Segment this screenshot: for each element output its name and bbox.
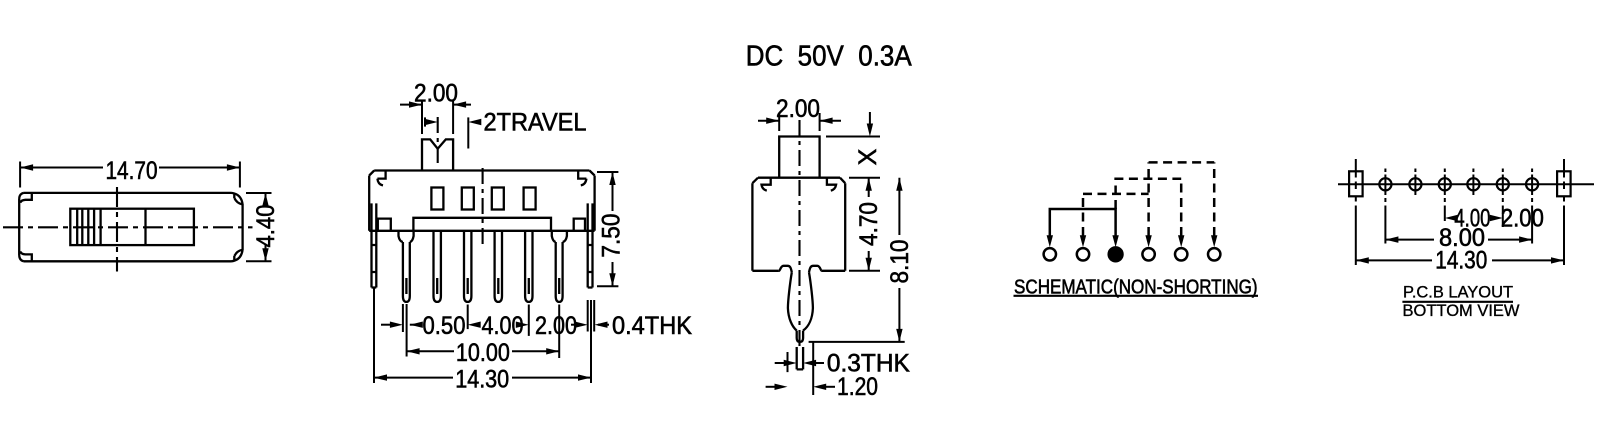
hole 2 center mark xyxy=(1414,169,1416,196)
dashed wire terminal2-terminal4 horizontal xyxy=(1083,193,1149,196)
pin tip U xyxy=(797,331,803,342)
dim 14.30 left extension line xyxy=(373,289,375,384)
dim 14.30 arrowheads xyxy=(374,374,591,380)
dim 14.30 right extension line xyxy=(590,300,592,383)
pcb hole 4 xyxy=(1467,178,1479,190)
svg-text:14.30: 14.30 xyxy=(455,366,509,394)
left slot pad xyxy=(1349,171,1363,196)
terminal 5 circle xyxy=(1175,248,1187,260)
dim 2.00 side extension lines xyxy=(779,113,819,131)
arrowhead onto terminal 3 xyxy=(1112,235,1118,247)
pcb hole 2 xyxy=(1409,178,1421,190)
pin 4 xyxy=(495,231,502,302)
travel arrow to center xyxy=(425,121,430,123)
pcb caption line1 underline xyxy=(1402,301,1513,303)
arrowhead onto terminal 2 xyxy=(1080,235,1086,247)
front body bottom edge xyxy=(369,230,594,232)
dim 2.00 knob extension lines xyxy=(422,100,453,134)
dim 1.20 left arrow xyxy=(766,386,775,388)
dashed wire terminal4-terminal6 horizontal xyxy=(1149,161,1215,164)
corner notch bottom-right xyxy=(232,250,243,261)
dim 0.50 left arrow xyxy=(381,324,390,326)
front body corner bracket top-left xyxy=(377,171,385,186)
pcb hole 5 xyxy=(1497,178,1509,190)
pcb hole 3 xyxy=(1439,178,1451,190)
arrowhead onto terminal 1 xyxy=(1047,235,1053,247)
pin end cross-section lines xyxy=(797,347,803,369)
dim 14.70 extension lines xyxy=(20,162,240,188)
dim 0.50 right arrow xyxy=(410,324,421,326)
actuator knob (front) with V notch xyxy=(422,139,453,170)
dashed wire terminal6 vertical xyxy=(1213,162,1216,236)
pin 3 xyxy=(464,231,471,302)
svg-text:X: X xyxy=(854,148,882,165)
svg-text:10.00: 10.00 xyxy=(456,339,510,367)
dim 4.40 dimension line xyxy=(265,193,267,261)
svg-text:8.10: 8.10 xyxy=(886,240,914,284)
terminal 6 circle xyxy=(1208,248,1220,260)
side centerline xyxy=(798,120,800,350)
dim 8.00 arrowheads xyxy=(1385,236,1532,242)
dim 4.70 extension lines xyxy=(849,178,880,271)
dim 8.00 dimension line xyxy=(1385,239,1532,241)
contact window 4 xyxy=(524,188,536,210)
dim 2.00 side arrowheads xyxy=(766,118,832,124)
svg-text:7.50: 7.50 xyxy=(598,214,626,258)
pin 1 xyxy=(403,242,410,302)
svg-text:P.C.B LAYOUT: P.C.B LAYOUT xyxy=(1403,284,1513,302)
hole 3 extension line (4.00) xyxy=(1444,198,1446,221)
slider knob rectangle (top view) xyxy=(70,209,194,245)
base plate xyxy=(413,218,551,231)
contact window 1 xyxy=(431,188,443,210)
svg-text:DC 50V 0.3A: DC 50V 0.3A xyxy=(746,41,913,73)
hole 4 center mark xyxy=(1472,169,1474,196)
hole 6 center mark xyxy=(1531,169,1533,196)
side body outline xyxy=(752,178,845,271)
terminal 2 circle xyxy=(1077,248,1089,260)
dim 14.70 dimension line xyxy=(20,167,240,169)
right mounting tab (front) xyxy=(588,203,593,287)
hole 5 center mark xyxy=(1502,169,1504,196)
dashed wire terminal2 vertical xyxy=(1082,194,1085,236)
arrowhead onto terminal 5 xyxy=(1178,235,1184,247)
right tab edge extension lines xyxy=(588,300,595,332)
dim X extension line xyxy=(826,136,880,138)
horizontal centerline (top view) xyxy=(3,226,253,228)
hole 3 center mark xyxy=(1444,169,1446,196)
pcb hole 1 xyxy=(1379,178,1391,190)
right pad extension line (to 14.30) xyxy=(1563,196,1565,265)
2TRAVEL leader arrow xyxy=(472,121,481,123)
hole 1 extension line (8.00) xyxy=(1384,198,1386,244)
pin 5 xyxy=(525,231,532,302)
dim 7.50 arrowheads xyxy=(609,172,615,286)
dim 8.10 arrowheads xyxy=(896,178,902,342)
0.3THK left arrow xyxy=(775,362,784,364)
right bottom step xyxy=(574,219,585,231)
dim 4.70 arrowheads xyxy=(866,178,872,271)
dim 8.10 bottom extension line xyxy=(809,341,905,343)
front body top edge with chamfered corners xyxy=(369,171,594,231)
dim 4.40 extension lines xyxy=(246,193,272,261)
switch body outline (top view) xyxy=(19,193,242,261)
schematic caption underline xyxy=(1014,295,1259,297)
actuator knob (side) xyxy=(779,137,819,178)
arrow to right tab xyxy=(571,324,577,326)
hole 5 extension line (4.00/2.00) xyxy=(1502,198,1504,227)
vertical centerline (top view) xyxy=(116,187,118,272)
0.4THK leader arrow xyxy=(598,324,609,326)
dim X arrow xyxy=(869,112,871,124)
contact window 2 xyxy=(462,188,474,210)
terminal 1 circle xyxy=(1044,248,1056,260)
svg-text:2.00: 2.00 xyxy=(414,80,458,108)
left bottom step xyxy=(378,219,391,231)
terminal 3 circle (common, filled) xyxy=(1109,247,1123,261)
slider mid divider xyxy=(144,209,146,245)
terminal 4 circle xyxy=(1142,248,1154,260)
pin shoulder bumps (side) xyxy=(779,266,822,273)
arrowhead onto terminal 4 xyxy=(1145,235,1151,247)
svg-text:14.70: 14.70 xyxy=(106,157,158,185)
pin 6 shoulder xyxy=(552,231,567,242)
dashed wire terminal5 vertical xyxy=(1180,179,1183,236)
pin3 center extension line xyxy=(467,305,469,330)
pin1 edge extension lines xyxy=(403,304,407,357)
svg-text:0.4THK: 0.4THK xyxy=(612,312,692,340)
dim 2.00 side dimension line xyxy=(758,120,841,122)
svg-text:4.70: 4.70 xyxy=(855,202,883,246)
dim 14.30 pcb dimension line xyxy=(1356,259,1564,261)
hole 1 center mark xyxy=(1384,169,1386,196)
dim 14.30 dimension line xyxy=(374,377,591,379)
dashed wire terminal3-terminal5 horizontal xyxy=(1116,179,1182,209)
side body corner bracket top-right xyxy=(827,178,836,191)
dim 4.00 pcb left arrow xyxy=(1445,215,1458,221)
svg-text:1.20: 1.20 xyxy=(837,373,878,401)
left pad extension line (to 14.30) xyxy=(1355,196,1357,265)
corner notch top-right xyxy=(232,193,243,204)
pin 6 xyxy=(556,242,563,302)
dim 4.70 dimension line xyxy=(868,178,870,271)
left mounting tab (front) xyxy=(372,203,377,287)
dashed wire terminal4 vertical xyxy=(1147,162,1150,236)
body centerline (front) xyxy=(482,168,484,247)
pin5 center extension line xyxy=(528,305,530,336)
svg-text:2.00: 2.00 xyxy=(1501,205,1544,233)
svg-text:14.30: 14.30 xyxy=(1435,246,1487,274)
right pad center mark xyxy=(1563,159,1565,189)
front body corner bracket top-right xyxy=(578,171,586,186)
left pad center mark xyxy=(1355,159,1357,189)
pin 2 xyxy=(434,231,441,302)
arrowhead onto terminal 6 xyxy=(1211,235,1217,247)
slider serration lines xyxy=(77,209,100,245)
dim 7.50 extension lines xyxy=(597,172,618,286)
corner notch top-left xyxy=(19,193,32,203)
dim 14.30 pcb arrowheads xyxy=(1356,257,1564,263)
svg-text:2TRAVEL: 2TRAVEL xyxy=(484,109,587,137)
dim 4.00 pcb right arrow xyxy=(1490,215,1503,221)
hole 6 extension line (8.00) xyxy=(1531,198,1533,244)
pcb hole 6 xyxy=(1526,178,1538,190)
corner notch bottom-left xyxy=(19,251,32,261)
pin6 center extension line xyxy=(558,305,560,359)
contact window 3 xyxy=(492,188,504,210)
svg-text:2.00: 2.00 xyxy=(535,312,577,340)
dim 4.00 right arrow xyxy=(516,322,529,328)
dim 2.00 knob arrowheads xyxy=(409,101,466,107)
svg-text:0.50: 0.50 xyxy=(423,312,466,340)
svg-text:4.40: 4.40 xyxy=(252,205,280,248)
pcb horizontal centerline xyxy=(1338,183,1594,185)
side solder pin outer bulb xyxy=(788,272,813,330)
travel tick mark xyxy=(424,117,426,126)
pin 1 shoulder xyxy=(399,231,414,242)
dim 2.00 knob dimension line xyxy=(400,104,471,106)
dim 10.00 arrowheads xyxy=(407,348,560,354)
svg-text:BOTTOM VIEW: BOTTOM VIEW xyxy=(1403,302,1520,320)
dim 4.00 left arrow xyxy=(468,322,481,328)
knob centerline xyxy=(437,117,439,166)
0.3THK right arrow xyxy=(816,362,824,364)
travel end line xyxy=(467,117,469,148)
right slot pad xyxy=(1557,171,1571,196)
side body corner bracket top-left xyxy=(762,178,771,191)
solid wire terminal1 to terminal3 xyxy=(1050,209,1116,236)
dim 4.40 arrowheads xyxy=(262,193,268,261)
dim 1.20 extension lines xyxy=(788,342,814,395)
dim 10.00 dimension line xyxy=(407,350,560,352)
dim 1.20 right arrow xyxy=(826,386,835,388)
dim 8.10 dimension line xyxy=(898,178,900,342)
dim 14.70 arrowheads xyxy=(20,164,240,170)
svg-text:2.00: 2.00 xyxy=(776,95,820,123)
dim 7.50 dimension line xyxy=(612,172,614,286)
